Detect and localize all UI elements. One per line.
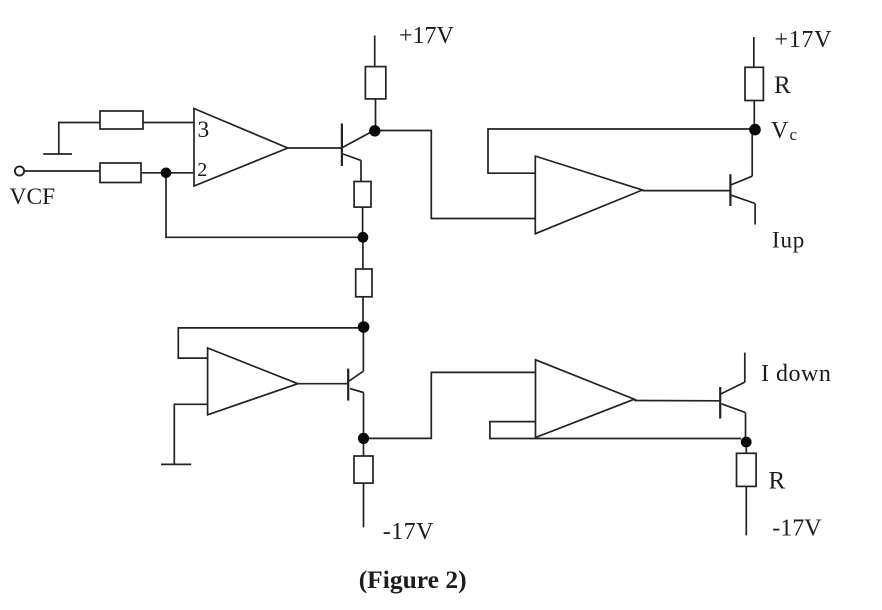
svg-text:3: 3	[198, 117, 210, 143]
svg-text:-17V: -17V	[772, 515, 822, 541]
svg-text:2: 2	[197, 159, 207, 181]
svg-text:R: R	[769, 467, 786, 494]
svg-text:+17V: +17V	[399, 23, 455, 49]
svg-text:VCF: VCF	[10, 184, 56, 210]
svg-text:+17V: +17V	[775, 27, 833, 53]
svg-text:R: R	[774, 72, 791, 99]
svg-text:(Figure 2): (Figure 2)	[359, 565, 467, 594]
svg-text:Iup: Iup	[772, 227, 805, 252]
svg-text:c: c	[790, 125, 798, 144]
svg-text:V: V	[771, 118, 789, 144]
svg-text:-17V: -17V	[383, 519, 434, 545]
svg-text:I down: I down	[761, 361, 831, 387]
